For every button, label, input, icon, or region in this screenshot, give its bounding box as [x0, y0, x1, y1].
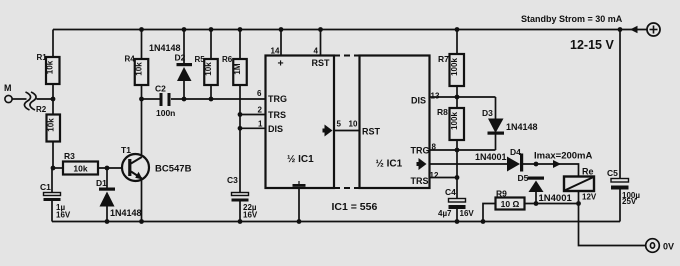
svg-text:C4: C4	[445, 187, 456, 197]
svg-text:IC1 = 556: IC1 = 556	[332, 201, 378, 213]
wire R7 bottom to DIS13 node	[456, 86, 458, 108]
wire C2 to TRG line	[171, 98, 266, 100]
svg-text:C3: C3	[227, 175, 238, 185]
wire R3 to T1 base	[98, 167, 123, 169]
wire R2 bottom to R3 node	[52, 142, 54, 169]
diode D5	[518, 173, 573, 204]
svg-text:12: 12	[430, 171, 439, 180]
svg-text:1N4001: 1N4001	[475, 152, 507, 162]
wire supply right drop to C5	[619, 30, 621, 179]
svg-text:12V: 12V	[582, 193, 597, 202]
wire D2 bottom	[183, 81, 185, 99]
wire D2 top from rail	[183, 30, 185, 64]
node TRS12 C4	[455, 175, 460, 180]
svg-text:10k: 10k	[135, 62, 144, 76]
svg-text:Re: Re	[582, 167, 594, 177]
wire R4 bottom / T1 collector node	[141, 85, 143, 99]
svg-text:M: M	[4, 83, 12, 93]
svg-text:R4: R4	[125, 55, 136, 64]
wire T1 collector	[141, 99, 143, 155]
wire C5 bottom to ground bus	[619, 190, 621, 222]
node rail R4	[139, 27, 144, 32]
svg-text:1N4148: 1N4148	[149, 43, 181, 53]
wire top supply rail	[53, 29, 620, 31]
svg-text:1: 1	[258, 119, 263, 128]
wire D3 bottom drop	[495, 134, 497, 150]
transistor T1	[121, 145, 192, 181]
wire TRS pin2	[240, 114, 266, 116]
svg-text:D5: D5	[518, 173, 529, 183]
resistor R2	[36, 105, 60, 142]
svg-text:Standby Strom = 30 mA: Standby Strom = 30 mA	[521, 14, 623, 24]
node gnd IC	[297, 219, 302, 224]
node gnd D1	[105, 219, 110, 224]
wire R2 top	[52, 99, 54, 115]
arrow on relay feed	[553, 160, 561, 168]
diode D1	[96, 178, 142, 218]
node gnd C4	[455, 219, 460, 224]
svg-text:+: +	[278, 58, 284, 70]
node rail R6	[238, 27, 243, 32]
svg-text:10 Ω: 10 Ω	[501, 199, 520, 209]
svg-text:16V: 16V	[460, 209, 475, 218]
wire R5 bottom	[210, 85, 212, 99]
node rail R7	[455, 27, 460, 32]
svg-text:R8: R8	[437, 107, 448, 117]
node base D1	[105, 166, 110, 171]
capacitor C1	[40, 182, 71, 220]
wire TRS pin12 line	[430, 177, 458, 179]
svg-text:16V: 16V	[243, 211, 258, 220]
svg-text:BC547B: BC547B	[155, 164, 192, 175]
IC1 dashed link top	[334, 55, 360, 57]
wire T1 emitter to ground	[141, 180, 143, 222]
svg-text:R1: R1	[37, 53, 48, 62]
node rail pin14	[279, 27, 284, 32]
svg-text:RST: RST	[312, 58, 331, 68]
svg-text:100k: 100k	[450, 58, 459, 76]
wire R7 top from rail	[456, 30, 458, 55]
svg-text:100k: 100k	[450, 112, 459, 130]
svg-text:0V: 0V	[663, 242, 674, 252]
svg-text:8: 8	[432, 143, 437, 152]
resistor R6	[222, 55, 247, 85]
wire IC1 pin14 supply	[280, 30, 282, 56]
svg-text:10k: 10k	[204, 62, 213, 76]
svg-text:25V: 25V	[622, 197, 637, 206]
resistor R8	[437, 107, 464, 140]
wire TRG pin8 line	[430, 149, 496, 151]
svg-text:½ IC1: ½ IC1	[376, 159, 403, 170]
svg-text:D3: D3	[482, 108, 493, 118]
node relay bottom 0V	[576, 201, 581, 206]
wire collector node to C2	[142, 98, 161, 100]
svg-text:10k: 10k	[47, 118, 56, 132]
IC1a minus supply mark (pin 7)	[293, 184, 306, 187]
svg-text:T1: T1	[121, 145, 131, 155]
wire ground bus	[52, 221, 620, 223]
wire C3 bottom to ground	[239, 202, 241, 222]
svg-text:RST: RST	[362, 127, 381, 137]
wire R6 top	[239, 30, 241, 60]
node DIS R6	[238, 126, 243, 131]
node D4 D5	[534, 162, 539, 167]
wire D1 top	[106, 168, 108, 188]
svg-text:C1: C1	[40, 182, 51, 192]
IC U1 half B (556 timer IC1b)	[337, 56, 440, 189]
node TRG D2	[182, 97, 187, 102]
wire output pin line to D4	[430, 163, 508, 165]
wire IC1 pin4 RST	[320, 30, 322, 56]
svg-text:4: 4	[314, 47, 319, 56]
capacitor C4	[438, 187, 474, 218]
svg-text:TRG: TRG	[268, 94, 287, 104]
terminal M	[4, 83, 12, 103]
node TRS R6	[238, 112, 243, 117]
wire R4 top	[141, 30, 143, 60]
relay Re	[564, 167, 597, 202]
svg-text:13: 13	[431, 92, 440, 101]
resistor R4	[125, 55, 149, 86]
node rail D2	[182, 27, 187, 32]
node gnd T1	[139, 219, 144, 224]
svg-text:2: 2	[258, 106, 263, 115]
wire C4 bottom to ground	[456, 209, 458, 222]
svg-text:1N4148: 1N4148	[506, 122, 538, 132]
svg-text:R2: R2	[36, 105, 47, 114]
svg-text:C5: C5	[607, 168, 618, 178]
svg-text:4µ7: 4µ7	[438, 209, 452, 218]
node TRG collector	[139, 97, 144, 102]
IC U1 half A (556 timer IC1a)	[257, 47, 334, 189]
svg-text:TRG: TRG	[411, 146, 430, 156]
node rail pin4	[318, 27, 323, 32]
wire node to R3	[53, 167, 63, 169]
wire R9 right to relay bottom node	[525, 203, 579, 205]
wire R1 drop from rail	[52, 30, 54, 58]
wire R6 bottom down to C3	[239, 85, 241, 193]
resistor R7	[438, 54, 464, 86]
capacitor C3	[227, 175, 258, 220]
pin 5 output arrow	[325, 125, 333, 137]
wire DIS pin1	[240, 127, 266, 129]
node gnd R9	[481, 219, 486, 224]
wire R9 left to ground	[483, 204, 496, 222]
diode D2	[149, 43, 192, 81]
wire D3 top drop	[495, 97, 497, 119]
wire +12V terminal lead	[620, 29, 647, 31]
svg-text:5: 5	[337, 120, 342, 129]
diode D4	[475, 147, 523, 172]
svg-text:TRS: TRS	[411, 176, 429, 186]
wire pin5 to pin10	[334, 130, 360, 132]
node TRG R5	[209, 97, 214, 102]
wire R5 top	[210, 30, 212, 60]
svg-text:DIS: DIS	[411, 96, 426, 106]
svg-text:R6: R6	[222, 55, 233, 64]
svg-text:DIS: DIS	[268, 124, 283, 134]
terminal +12V	[630, 23, 660, 36]
wire R1 bottom to node M	[52, 84, 54, 99]
svg-text:Imax=200mA: Imax=200mA	[534, 151, 592, 162]
wire relay node to 0V	[579, 204, 647, 246]
svg-text:R3: R3	[64, 151, 75, 161]
resistor R3	[63, 151, 98, 175]
pin 9 output arrow	[419, 158, 427, 170]
wire C1 bottom to ground bus	[51, 201, 53, 222]
node TRG8 R8	[455, 148, 460, 153]
svg-text:12-15 V: 12-15 V	[570, 38, 614, 52]
svg-text:1N4148: 1N4148	[110, 208, 142, 218]
svg-text:1N4001: 1N4001	[539, 193, 573, 204]
wire M terminal lead	[12, 98, 27, 100]
wire DIS pin13 line	[430, 96, 496, 98]
wire D1 bottom	[106, 207, 108, 222]
capacitor C2	[155, 84, 175, 119]
wire D4 cathode to relay corner	[523, 164, 579, 177]
resistor R5	[195, 55, 218, 85]
svg-text:100n: 100n	[156, 108, 175, 118]
cable break symbol	[24, 92, 36, 110]
wire IC1 ground pin	[298, 188, 300, 222]
resistor R9	[496, 189, 525, 210]
wire M break to node	[37, 98, 54, 100]
wire relay bottom	[578, 191, 580, 204]
svg-text:C2: C2	[155, 84, 166, 94]
node D5 R9	[534, 201, 539, 206]
node rail right corner	[618, 27, 623, 32]
IC1 dashed link bottom	[334, 187, 360, 189]
wire node down to C1	[51, 168, 53, 193]
node M/R1/R2	[51, 97, 56, 102]
svg-text:14: 14	[271, 47, 280, 56]
svg-text:16V: 16V	[56, 211, 71, 220]
svg-text:D2: D2	[175, 53, 186, 63]
svg-text:1M: 1M	[233, 63, 242, 74]
node R2 R3 C1	[51, 166, 56, 171]
resistor R1	[37, 53, 60, 84]
node gnd C3	[238, 219, 243, 224]
svg-text:6: 6	[257, 89, 262, 98]
svg-text:R9: R9	[496, 189, 507, 199]
svg-text:10k: 10k	[46, 60, 55, 74]
node DIS13 R7 R8	[455, 95, 460, 100]
svg-text:R7: R7	[438, 54, 449, 64]
svg-text:10: 10	[349, 120, 358, 129]
svg-text:D4: D4	[510, 147, 521, 157]
wire D5 anode drop	[535, 192, 537, 204]
terminal 0V	[646, 239, 674, 253]
svg-text:TRS: TRS	[268, 110, 286, 120]
wire R8 bottom to C4 chain	[456, 140, 458, 199]
capacitor C5	[607, 168, 640, 206]
svg-text:½ IC1: ½ IC1	[287, 154, 314, 165]
svg-text:D1: D1	[96, 178, 107, 188]
node rail R5	[209, 27, 214, 32]
svg-text:10k: 10k	[73, 164, 87, 174]
diode D3	[482, 108, 538, 135]
